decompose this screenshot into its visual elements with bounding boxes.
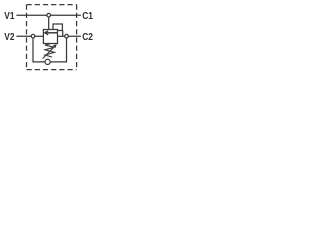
- node A (pilot tap on V1-C1 line): [47, 13, 51, 17]
- spring (adjustable, below valve): [45, 44, 54, 57]
- check ball (circle on bottom bypass line): [45, 59, 50, 64]
- adjustment arrow across spring: [43, 46, 55, 59]
- svg-text:V1: V1: [4, 11, 15, 22]
- wire pilot line from node A down to valve top: [48, 15, 50, 29]
- flow arrow inside valve (points left): [45, 32, 57, 34]
- wire pilot piston to C2 line: [62, 30, 64, 36]
- enclosure dashed boundary (cartridge envelope): [27, 5, 77, 70]
- wire V2 to valve inlet: [16, 35, 43, 37]
- svg-text:C1: C1: [82, 11, 93, 22]
- wire bypass check path (left drop, bottom run, right rise): [33, 36, 67, 62]
- svg-text:V2: V2: [4, 32, 15, 43]
- node C (tee on C2 line): [65, 34, 69, 38]
- wire V1 to C1 (through passage): [16, 14, 81, 16]
- svg-text:C2: C2: [82, 32, 93, 43]
- pilot piston (small rectangle on valve top right): [53, 24, 62, 31]
- wire valve outlet to C2: [58, 35, 81, 37]
- node B (tee on V2 line): [31, 34, 35, 38]
- valve envelope (main counterbalance element): [43, 30, 57, 44]
